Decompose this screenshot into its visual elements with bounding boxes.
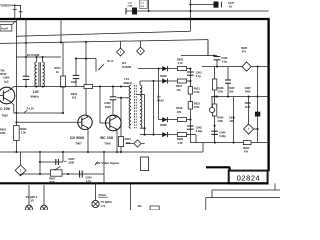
svg-text:1k: 1k (56, 70, 59, 74)
svg-text:116: 116 (72, 95, 77, 99)
svg-text:SL/Y: SL/Y (107, 59, 113, 63)
svg-text:C945: C945 (229, 87, 236, 90)
svg-text:C942: C942 (196, 127, 203, 130)
svg-text:1,21: 1,21 (128, 2, 133, 4)
svg-text:270: 270 (126, 141, 131, 145)
svg-text:1,5k: 1,5k (21, 131, 27, 135)
svg-text:T956: T956 (104, 141, 111, 145)
svg-text:7808: 7808 (245, 90, 251, 93)
svg-text:47k: 47k (177, 110, 182, 114)
svg-text:4,7μ: 4,7μ (196, 75, 201, 78)
svg-text:170k: 170k (217, 90, 223, 93)
svg-text:C946: C946 (229, 117, 236, 120)
svg-text:1500: 1500 (105, 105, 111, 109)
svg-text:C904: C904 (3, 76, 10, 80)
svg-text:C608: C608 (71, 81, 78, 84)
svg-text:R971: R971 (55, 66, 62, 70)
svg-text:D452B: D452B (122, 65, 131, 69)
svg-text:29: 29 (229, 5, 232, 8)
svg-text:R921: R921 (194, 87, 201, 90)
svg-text:R912: R912 (71, 92, 78, 96)
svg-text:R931: R931 (243, 146, 250, 150)
svg-text:1500: 1500 (68, 160, 74, 164)
svg-text:C 106: C 106 (0, 107, 10, 111)
svg-text:0,82μ: 0,82μ (219, 135, 226, 138)
svg-text:R934: R934 (217, 117, 224, 120)
svg-text:8 mV: 8 mV (1, 27, 8, 31)
svg-text:TV Q25 A: TV Q25 A (26, 195, 38, 199)
svg-text:2θs: 2θs (138, 205, 143, 208)
svg-text:T955: T955 (2, 113, 9, 117)
svg-text:R902: R902 (0, 128, 7, 131)
svg-text:C943: C943 (221, 57, 228, 60)
svg-text:BV Video Signal: BV Video Signal (97, 161, 119, 165)
svg-text:CD 9000: CD 9000 (70, 136, 85, 140)
svg-text:BV D452B: BV D452B (27, 53, 40, 57)
svg-text:L92: L92 (33, 90, 39, 94)
svg-text:0,22μ: 0,22μ (196, 130, 203, 133)
svg-text:1160: 1160 (245, 106, 251, 109)
svg-text:225k: 225k (0, 132, 6, 135)
svg-text:L71: L71 (101, 204, 106, 208)
svg-text:D908: D908 (160, 74, 167, 78)
svg-text:70k: 70k (0, 68, 5, 72)
svg-text:R948: R948 (245, 102, 252, 105)
svg-text:TV Q25A: TV Q25A (101, 200, 112, 204)
svg-text:R915: R915 (176, 85, 183, 88)
svg-text:45mA: 45mA (98, 193, 107, 197)
svg-text:C935: C935 (68, 157, 75, 161)
svg-text:R935: R935 (241, 47, 248, 50)
svg-text:47k: 47k (242, 51, 247, 54)
svg-text:C934: C934 (85, 175, 92, 179)
svg-text:R907: R907 (49, 177, 56, 181)
svg-text:220: 220 (230, 120, 235, 123)
svg-text:R970: R970 (0, 72, 7, 76)
svg-text:2,9B: 2,9B (128, 6, 133, 8)
svg-text:1/2: 1/2 (30, 199, 34, 203)
svg-text:4,7k: 4,7k (178, 61, 184, 65)
svg-text:47k: 47k (244, 149, 249, 153)
svg-text:-74,1V: -74,1V (26, 106, 35, 110)
svg-text:R904: R904 (125, 137, 132, 141)
svg-text:38kHz: 38kHz (124, 81, 133, 85)
svg-text:C941: C941 (196, 72, 203, 75)
svg-text:BC 108: BC 108 (100, 136, 113, 140)
svg-text:250k: 250k (49, 180, 55, 184)
svg-text:D909: D909 (160, 123, 167, 127)
svg-text:R905: R905 (177, 137, 184, 141)
svg-text:330: 330 (229, 90, 234, 93)
svg-text:AA10: AA10 (157, 98, 165, 102)
svg-text:4,7k: 4,7k (178, 141, 184, 145)
svg-text:R916: R916 (176, 106, 183, 110)
svg-text:R903: R903 (20, 127, 27, 131)
svg-text:C937: C937 (104, 101, 111, 105)
svg-text:170k: 170k (217, 120, 223, 123)
svg-text:96kHz: 96kHz (31, 95, 40, 99)
svg-text:C967: C967 (245, 87, 252, 90)
svg-text:R933: R933 (217, 87, 224, 90)
svg-text:170k: 170k (194, 106, 200, 109)
svg-text:4,7μ: 4,7μ (86, 179, 92, 183)
svg-text:1μ5: 1μ5 (4, 79, 9, 83)
svg-text:4,3μ: 4,3μ (222, 60, 227, 63)
svg-text:R922: R922 (177, 57, 184, 61)
svg-text:02824: 02824 (237, 173, 261, 182)
svg-text:170k: 170k (194, 91, 200, 94)
svg-text:R923: R923 (194, 102, 201, 105)
svg-text:C944: C944 (219, 132, 226, 135)
svg-text:T907: T907 (75, 141, 82, 145)
svg-text:TORED: TORED (0, 3, 9, 7)
svg-text:47k: 47k (177, 89, 182, 92)
